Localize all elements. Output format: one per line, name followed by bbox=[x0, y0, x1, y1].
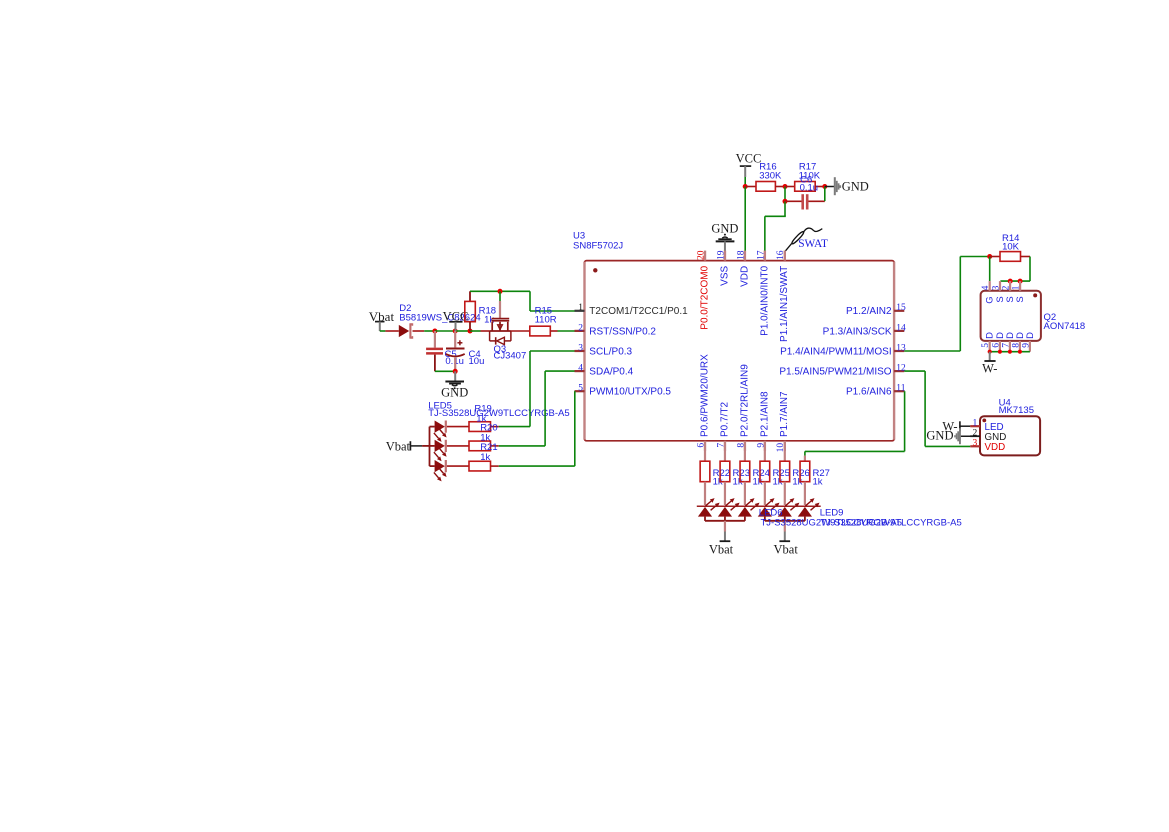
svg-text:GND: GND bbox=[711, 221, 738, 235]
svg-text:13: 13 bbox=[896, 343, 906, 353]
svg-text:Vbat: Vbat bbox=[709, 542, 734, 556]
wire R15 to U3 pin2 bbox=[550, 330, 557, 332]
LED emission arrows col 5 bbox=[785, 501, 791, 506]
U3 pin 19 VSS bbox=[724, 251, 726, 261]
wire pin5 net vertical bbox=[574, 391, 576, 466]
U4 pin1 marker dot bbox=[982, 419, 986, 423]
Q2 pin 7 D bbox=[1009, 341, 1011, 352]
svg-text:GND: GND bbox=[926, 429, 953, 443]
LED cathode bar col 2 bbox=[717, 505, 741, 507]
wire junction to GND port bbox=[825, 186, 834, 188]
LED emission arrows col 6 bbox=[806, 501, 812, 506]
capacitor C5 bbox=[434, 331, 436, 348]
svg-text:6: 6 bbox=[991, 343, 1001, 348]
svg-text:7: 7 bbox=[716, 443, 726, 448]
resistor R21 bbox=[469, 461, 491, 471]
node VCC/VDD junction bbox=[743, 184, 748, 189]
power port Vbat (bottom left) bbox=[724, 521, 726, 532]
node Q2 drain junction bbox=[1008, 350, 1012, 354]
wire C5 to GND node bbox=[435, 370, 455, 372]
svg-text:20: 20 bbox=[696, 250, 706, 260]
node R17/C6/GND junction bbox=[822, 184, 827, 189]
svg-text:VSS: VSS bbox=[719, 265, 730, 285]
U3 pin 17 P1.0/AIN0/INT0 bbox=[764, 251, 766, 261]
LED anode lead col 4 bbox=[764, 517, 766, 521]
U3 pin 4 SDA/P0.4 bbox=[575, 370, 585, 372]
svg-text:15: 15 bbox=[896, 303, 906, 313]
svg-text:RST/SSN/P0.2: RST/SSN/P0.2 bbox=[589, 326, 656, 337]
svg-text:S: S bbox=[1015, 296, 1026, 302]
U3 pin 13 P1.4/AIN4/PWM11/MOSI bbox=[894, 350, 904, 352]
wire junction down to Q2 gate bbox=[989, 257, 991, 282]
LED5 wire to resistor row 2 bbox=[447, 445, 469, 447]
diode D2 B5819WS bbox=[399, 325, 409, 337]
transistor Q3 CJ3407 P-MOSFET bbox=[499, 291, 501, 301]
wire pin3 net vertical bbox=[529, 351, 531, 427]
svg-text:9: 9 bbox=[1021, 343, 1031, 348]
Q2 pin 3 S bbox=[999, 281, 1001, 291]
wire junction down to U3 pin18 VDD bbox=[744, 187, 746, 252]
svg-text:VDD: VDD bbox=[985, 442, 1006, 453]
svg-text:1k: 1k bbox=[480, 452, 490, 463]
Q2 pin 5 D bbox=[989, 341, 991, 352]
wire U3 pin7 to R23 bbox=[724, 451, 726, 461]
svg-text:P0.7/T2: P0.7/T2 bbox=[719, 402, 730, 437]
LED5 element 3 emission arrows bbox=[439, 468, 444, 474]
U3 pin 12 P1.5/AIN5/PWM21/MISO bbox=[894, 370, 904, 372]
U3 pin 3 SCL/P0.3 bbox=[575, 350, 585, 352]
LED cathode bar col 6 bbox=[797, 505, 821, 507]
svg-text:CJ3407: CJ3407 bbox=[494, 351, 527, 362]
Q2 pin 8 D bbox=[1019, 341, 1021, 352]
svg-text:10u: 10u bbox=[469, 356, 485, 367]
wire U3 pin10 to R26 bbox=[784, 451, 786, 461]
svg-text:P2.0/T2RL/AIN9: P2.0/T2RL/AIN9 bbox=[739, 364, 750, 437]
resistor R18 (vertical) bbox=[469, 291, 471, 301]
U3 pin 14 P1.3/AIN3/SCK bbox=[894, 330, 904, 332]
LED triangle col 5 bbox=[778, 507, 792, 517]
resistor R25 1k bbox=[760, 461, 770, 482]
svg-text:TJ-S3528UG2W9TLCCYRGB-A5: TJ-S3528UG2W9TLCCYRGB-A5 bbox=[820, 517, 961, 528]
wire D2 to rail bbox=[413, 330, 425, 332]
LED anode lead col 5 bbox=[784, 517, 786, 521]
resistor R14 10K bbox=[990, 256, 1000, 258]
IC U4 MK7135 body bbox=[980, 416, 1040, 455]
wire Q3 drain to R15 bbox=[511, 330, 530, 332]
svg-text:17: 17 bbox=[756, 250, 766, 260]
U4 pin1 LED bbox=[970, 425, 980, 427]
svg-text:P1.7/AIN7: P1.7/AIN7 bbox=[779, 391, 790, 437]
node C6 left junction bbox=[783, 199, 788, 204]
node GND junction below C4 bbox=[453, 369, 458, 374]
svg-text:P2.1/AIN8: P2.1/AIN8 bbox=[759, 391, 770, 437]
wire rail C5-VCC bbox=[435, 330, 455, 332]
U3 pin 11 P1.6/AIN6 bbox=[894, 390, 904, 392]
wire R22 to LED bbox=[704, 482, 706, 505]
svg-text:VCC: VCC bbox=[736, 151, 762, 165]
LED cathode bar col 5 bbox=[777, 505, 801, 507]
U3 pin 7 P0.7/T2 bbox=[724, 441, 726, 451]
IC U3 SN8F5702J body bbox=[585, 261, 895, 441]
svg-text:1k: 1k bbox=[813, 476, 823, 487]
svg-text:110R: 110R bbox=[535, 315, 557, 326]
LED emission arrows col 3 bbox=[746, 501, 752, 506]
Q2 pin 2 S bbox=[1009, 281, 1011, 291]
node Q2 source junctions bbox=[1008, 279, 1013, 284]
capacitor C6 leads bbox=[785, 200, 802, 202]
svg-text:18: 18 bbox=[736, 250, 746, 260]
svg-text:P1.4/AIN4/PWM11/MOSI: P1.4/AIN4/PWM11/MOSI bbox=[780, 346, 892, 357]
svg-text:5: 5 bbox=[578, 384, 583, 394]
svg-text:P0.6/PWM20/URX: P0.6/PWM20/URX bbox=[699, 354, 710, 437]
svg-text:14: 14 bbox=[896, 323, 906, 333]
svg-text:AON7418: AON7418 bbox=[1044, 321, 1086, 332]
LED emission arrows col 2 bbox=[726, 501, 732, 506]
svg-text:Vbat: Vbat bbox=[774, 542, 799, 556]
wire R25 to LED bbox=[764, 482, 766, 505]
resistor R27 1k bbox=[800, 461, 810, 482]
LED5 element 1 bbox=[430, 426, 435, 428]
wire R14 right to Q2 sources bbox=[1029, 257, 1031, 282]
resistor R24 1k bbox=[740, 461, 750, 482]
ground GND (below C4/C5) bbox=[454, 371, 456, 381]
wire R23 to LED bbox=[724, 482, 726, 505]
U4 pin3 VDD bbox=[970, 445, 980, 447]
LED5 common anode wire bbox=[422, 445, 429, 447]
svg-text:SDA/P0.4: SDA/P0.4 bbox=[589, 367, 633, 378]
svg-text:P1.3/AIN3/SCK: P1.3/AIN3/SCK bbox=[823, 326, 892, 337]
capacitor C6 plates bbox=[801, 194, 804, 209]
resistor R16 bbox=[756, 182, 775, 192]
svg-text:330K: 330K bbox=[759, 170, 782, 181]
wire R27 to LED bbox=[804, 482, 806, 505]
transistor Q2 AON7418 body bbox=[981, 291, 1041, 341]
Q2 pin 9 D bbox=[1029, 341, 1031, 352]
resistor R22 1k bbox=[700, 461, 710, 482]
LED triangle col 3 bbox=[738, 507, 752, 517]
LED5 wire to resistor row 3 bbox=[447, 465, 469, 467]
node R14/gate junction bbox=[987, 254, 992, 259]
svg-text:5: 5 bbox=[981, 343, 991, 348]
wire U3 pin9 to R25 bbox=[764, 451, 766, 461]
LED9-11 anode bus bbox=[765, 520, 805, 522]
ground GND port (top right) bbox=[834, 177, 836, 195]
svg-text:P1.0/AIN0/INT0: P1.0/AIN0/INT0 bbox=[759, 265, 770, 335]
U3 pin 16 P1.1/AIN1/SWAT bbox=[784, 251, 786, 261]
svg-text:10K: 10K bbox=[1002, 241, 1020, 252]
svg-text:P0.0/T2COM0: P0.0/T2COM0 bbox=[699, 265, 710, 329]
resistor R15 bbox=[530, 326, 551, 336]
wire resistor row 1 to U3 bbox=[499, 426, 530, 428]
wire pin12 net to U4 VDD bbox=[904, 370, 925, 372]
U3 pin 5 PWM10/UTX/P0.5 bbox=[575, 390, 585, 392]
Q2 pin 1 S bbox=[1019, 281, 1021, 291]
svg-text:3: 3 bbox=[973, 438, 978, 448]
svg-text:SWAT: SWAT bbox=[798, 238, 828, 250]
svg-text:SCL/P0.3: SCL/P0.3 bbox=[589, 346, 632, 357]
LED cathode bar col 1 bbox=[697, 505, 721, 507]
svg-text:GND: GND bbox=[842, 179, 869, 193]
wire red VCC junction to R16 bbox=[745, 186, 756, 188]
Q2 drain bus wire bbox=[990, 351, 1030, 353]
wire mid junction to R17 bbox=[785, 186, 795, 188]
U3 pin 2 RST/SSN/P0.2 bbox=[575, 330, 585, 332]
power port W- (Q2 drain) bbox=[989, 352, 991, 361]
wire green stub below C6 junction to pin17 route bbox=[784, 201, 786, 216]
Q3 body diode bbox=[489, 331, 491, 341]
svg-text:0.1u: 0.1u bbox=[800, 183, 819, 194]
wire R16 to mid junction bbox=[775, 186, 785, 188]
svg-text:1: 1 bbox=[578, 303, 583, 313]
wire VCC to R16 rail bbox=[744, 177, 746, 187]
wire mid junction down to C6 left bbox=[784, 187, 786, 202]
svg-text:7: 7 bbox=[1001, 343, 1011, 348]
svg-text:3: 3 bbox=[578, 343, 583, 353]
Q2 pin 4 G bbox=[989, 281, 991, 291]
Q2 pin1 marker dot bbox=[1033, 293, 1037, 297]
svg-text:8: 8 bbox=[1011, 343, 1021, 348]
LED anode lead col 3 bbox=[744, 517, 746, 521]
wire R26 to LED bbox=[784, 482, 786, 505]
wire gate net green (R18 top to Q3 gate to pin1 route) bbox=[470, 290, 530, 292]
svg-text:2: 2 bbox=[578, 323, 583, 333]
svg-text:19: 19 bbox=[716, 250, 726, 260]
wire pin11 net to R27 bbox=[904, 391, 906, 451]
LED cathode bar col 4 bbox=[757, 505, 781, 507]
svg-text:P1.5/AIN5/PWM21/MISO: P1.5/AIN5/PWM21/MISO bbox=[779, 367, 891, 378]
LED5 element 3 bbox=[430, 465, 435, 467]
resistor R26 1k bbox=[780, 461, 790, 482]
wire R24 to LED bbox=[744, 482, 746, 505]
node Q3 gate junction bbox=[498, 289, 503, 294]
node Q2 drain junction bbox=[988, 350, 992, 354]
U3 pin 6 P0.6/PWM20/URX bbox=[704, 441, 706, 451]
wire pin4 net vertical bbox=[544, 371, 546, 446]
svg-text:10: 10 bbox=[776, 443, 786, 453]
LED emission arrows col 1 bbox=[706, 501, 712, 506]
svg-text:12: 12 bbox=[896, 364, 906, 374]
capacitor C4 polarized bbox=[454, 331, 456, 347]
node R18 junction bbox=[468, 329, 473, 334]
Q2 pin 6 D bbox=[999, 341, 1001, 352]
LED5 element 2 emission arrows bbox=[439, 448, 444, 454]
LED anode lead col 2 bbox=[724, 517, 726, 521]
U3 pin 9 P2.1/AIN8 bbox=[764, 441, 766, 451]
svg-text:T2COM1/T2CC1/P0.1: T2COM1/T2CC1/P0.1 bbox=[589, 306, 688, 317]
svg-text:16: 16 bbox=[776, 250, 786, 260]
svg-text:3: 3 bbox=[991, 285, 1001, 290]
node C5 junction bbox=[432, 329, 437, 334]
svg-text:4: 4 bbox=[578, 364, 583, 374]
U3 pin 1 T2COM1/T2CC1/P0.1 bbox=[575, 310, 585, 312]
svg-text:P1.6/AIN6: P1.6/AIN6 bbox=[846, 387, 892, 398]
wire rail R18-Q3 bbox=[470, 330, 481, 332]
svg-text:VDD: VDD bbox=[739, 266, 750, 287]
LED cathode bar col 3 bbox=[737, 505, 761, 507]
U3 pin1 marker dot bbox=[593, 268, 597, 272]
resistor R19 bbox=[469, 422, 491, 432]
node Q2 drain junction bbox=[998, 350, 1002, 354]
wire rail VCC-R18 bbox=[455, 330, 470, 332]
LED triangle col 4 bbox=[758, 507, 772, 517]
node R16/R17/C6 junction bbox=[783, 184, 788, 189]
U3 pin 8 P2.0/T2RL/AIN9 bbox=[744, 441, 746, 451]
U3 pin 15 P1.2/AIN2 bbox=[894, 310, 904, 312]
svg-text:P1.2/AIN2: P1.2/AIN2 bbox=[846, 306, 892, 317]
svg-text:P1.1/AIN1/SWAT: P1.1/AIN1/SWAT bbox=[779, 266, 790, 342]
LED triangle col 6 bbox=[798, 507, 812, 517]
resistor R17 bbox=[795, 182, 816, 192]
svg-text:4: 4 bbox=[981, 285, 991, 290]
power port W- (U4 pin1) bbox=[959, 421, 961, 431]
LED emission arrows col 4 bbox=[766, 501, 772, 506]
U3 pin 10 P1.7/AIN7 bbox=[784, 441, 786, 451]
LED5 element 1 emission arrows bbox=[439, 429, 444, 435]
node Q2 drain junction bbox=[1018, 350, 1022, 354]
wire U3 pin6 to R22 bbox=[704, 451, 706, 461]
svg-text:TJ-S3528UG2W9TLCCYRGB-A5: TJ-S3528UG2W9TLCCYRGB-A5 bbox=[428, 408, 569, 419]
LED triangle col 1 bbox=[698, 507, 712, 517]
node C4/VCC junction bbox=[453, 329, 458, 334]
svg-text:GND: GND bbox=[441, 386, 468, 400]
svg-text:8: 8 bbox=[736, 443, 746, 448]
svg-text:D: D bbox=[1025, 332, 1036, 339]
svg-text:PWM10/UTX/P0.5: PWM10/UTX/P0.5 bbox=[589, 387, 671, 398]
U3 pin 18 VDD bbox=[744, 251, 746, 261]
svg-text:1: 1 bbox=[1012, 285, 1022, 290]
wire U3 pin8 to R24 bbox=[744, 451, 746, 461]
U4 pin2 GND bbox=[970, 435, 980, 437]
LED5 wire to resistor row 1 bbox=[447, 426, 469, 428]
svg-text:MK7135: MK7135 bbox=[999, 405, 1034, 416]
LED anode lead col 1 bbox=[704, 517, 706, 521]
wire pin13 net to R14 bbox=[904, 350, 960, 352]
LED anode lead col 6 bbox=[804, 517, 806, 521]
svg-text:W-: W- bbox=[982, 361, 997, 375]
svg-text:Vbat: Vbat bbox=[386, 439, 411, 453]
wire Vbat to D2 bbox=[380, 330, 386, 332]
LED6-8 anode bus bbox=[705, 520, 745, 522]
resistor R23 1k bbox=[720, 461, 730, 482]
svg-text:SN8F5702J: SN8F5702J bbox=[573, 240, 623, 251]
U3 pin 20 P0.0/T2COM0 bbox=[704, 251, 706, 261]
svg-text:2: 2 bbox=[1002, 285, 1012, 290]
svg-text:9: 9 bbox=[756, 443, 766, 448]
resistor R20 bbox=[469, 441, 491, 451]
wire resistor row 2 to U3 bbox=[499, 445, 545, 447]
LED triangle col 2 bbox=[718, 507, 732, 517]
svg-text:6: 6 bbox=[696, 443, 706, 448]
svg-text:1: 1 bbox=[973, 419, 978, 429]
LED5 element 2 bbox=[430, 445, 435, 447]
ground GND port (U4 pin2) bbox=[959, 428, 961, 444]
wire R17 to right junction bbox=[815, 186, 825, 188]
power port Vbat (bottom right) bbox=[784, 521, 786, 532]
antenna SWAT squiggle at pin16 bbox=[785, 244, 792, 252]
wire resistor row 3 to U3 bbox=[499, 465, 575, 467]
